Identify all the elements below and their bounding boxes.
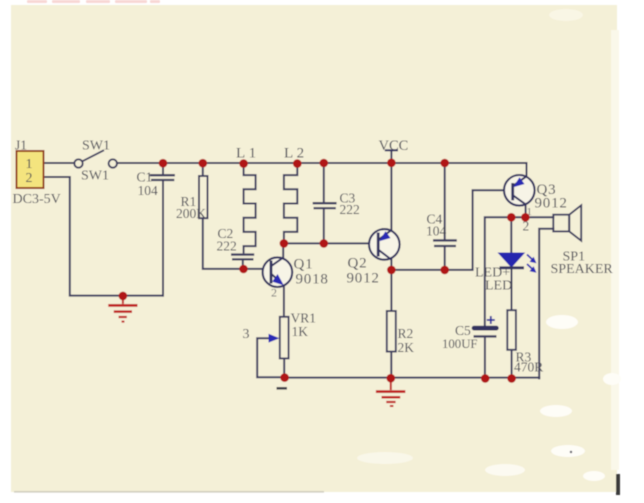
node: Q2 collector xyxy=(387,266,396,275)
svg-text:1K: 1K xyxy=(292,324,309,339)
wire: R1 bottom to Q1 base xyxy=(203,218,271,269)
node: VCC/rail xyxy=(387,159,396,168)
svg-text:2: 2 xyxy=(26,171,33,186)
wire: VCC tick stem xyxy=(390,151,392,164)
wire: VR1 wiper loop xyxy=(257,338,284,377)
inductor L1 xyxy=(244,164,256,254)
svg-text:222: 222 xyxy=(340,202,360,217)
svg-text:C5: C5 xyxy=(455,323,471,338)
node: L2 bottom / Q1 collector xyxy=(280,239,289,248)
LED D1 xyxy=(499,253,537,273)
node: C5 bottom xyxy=(481,374,490,383)
wire: Q1 collector stem xyxy=(282,243,284,258)
svg-text:DC3-5V: DC3-5V xyxy=(13,192,61,207)
capacitor C1 xyxy=(150,175,175,180)
speaker SP1 xyxy=(553,205,581,240)
wire: C3 bottom stem xyxy=(323,209,325,244)
wire: node B1 - L2/C3 row to Q2 base xyxy=(284,242,378,244)
node: C3 bottom xyxy=(320,239,329,248)
black mark bottom right xyxy=(616,474,620,495)
resistor R2 xyxy=(387,311,396,352)
svg-text:2K: 2K xyxy=(398,340,415,355)
capacitor C5 xyxy=(472,316,499,336)
node: C4 bottom xyxy=(440,266,449,275)
wire: VR1 bottom stem xyxy=(283,358,285,377)
node: C2 bottom / Q1 base xyxy=(239,265,248,274)
node: Q3 collector xyxy=(521,213,530,222)
ground (main, red) xyxy=(376,378,405,406)
capacitor C3 xyxy=(313,203,337,208)
wire: C3 top stem xyxy=(323,163,325,202)
wire: LED anode stem xyxy=(510,217,512,252)
svg-text:L2: L2 xyxy=(284,146,308,162)
wire: J1 pin2 down and bottom-left rail xyxy=(44,177,164,296)
wire: Q2 emitter from VCC rail xyxy=(390,163,392,231)
svg-text:1: 1 xyxy=(26,157,33,172)
svg-text:L1: L1 xyxy=(236,146,260,162)
inductor L2 xyxy=(284,164,297,244)
wire: R2 bottom stem xyxy=(390,352,392,379)
wire: C5 bottom stem xyxy=(484,337,486,378)
ground (battery return, red) xyxy=(108,296,137,322)
svg-text:Q1: Q1 xyxy=(294,257,314,273)
wire: Q3 collector stem xyxy=(525,204,527,217)
node: LED anode xyxy=(507,213,516,222)
wire: Q1 emitter to VR1 xyxy=(283,286,285,317)
pin 1 mark below VR1 xyxy=(277,387,288,390)
wire: J1 pin1 to SW1 xyxy=(44,162,75,164)
wire: R1 top stem xyxy=(202,163,204,176)
switch SW1 xyxy=(74,150,117,168)
white smudges bottom right xyxy=(357,9,621,481)
wire: VCC top rail xyxy=(117,163,527,177)
svg-text:J1: J1 xyxy=(15,138,27,153)
node: J1 return / ground xyxy=(119,292,128,301)
node: C4/rail xyxy=(440,159,449,168)
svg-text:R2: R2 xyxy=(398,326,414,341)
node: C1/rail xyxy=(159,159,168,168)
transistor Q3 xyxy=(504,175,535,206)
net VCC xyxy=(379,138,409,154)
wire: C1 top stem xyxy=(162,163,164,174)
capacitor C4 xyxy=(433,240,457,246)
wire: C4 top stem xyxy=(444,163,446,240)
wire: C1 lower stem xyxy=(162,180,164,295)
node: VR1 bottom xyxy=(280,373,289,382)
transistor Q2 xyxy=(369,229,400,260)
wire: R3 bottom stem xyxy=(511,350,513,379)
transistor Q1 xyxy=(263,257,293,287)
svg-text:Q2: Q2 xyxy=(348,256,368,272)
wire: Q2 collector row to Q3 base xyxy=(391,190,511,270)
node: R1/rail xyxy=(199,159,208,168)
wire: Q2 collector to R2 xyxy=(390,270,392,311)
svg-text:LED: LED xyxy=(485,279,512,294)
cropped red text fragment top edge xyxy=(27,0,160,3)
svg-text:470R: 470R xyxy=(514,360,543,375)
wire: speaker return down xyxy=(539,229,553,379)
svg-text:SW1: SW1 xyxy=(82,139,110,154)
node: C3/rail xyxy=(320,159,329,168)
svg-text:222: 222 xyxy=(217,239,237,254)
resistor R3 xyxy=(507,310,516,350)
svg-text:SW1: SW1 xyxy=(81,169,109,184)
connector J1 xyxy=(17,151,44,188)
potentiometer VR1 xyxy=(269,317,289,359)
resistor R1 xyxy=(199,176,208,218)
svg-text:9012: 9012 xyxy=(535,196,568,212)
svg-text:9018: 9018 xyxy=(296,272,329,288)
svg-text:200K: 200K xyxy=(176,206,206,221)
capacitor C2 xyxy=(231,255,254,260)
svg-text:3: 3 xyxy=(243,327,250,342)
wire: ground rail bottom xyxy=(285,377,540,379)
svg-text:2: 2 xyxy=(271,286,277,300)
wire: C2 bottom stem xyxy=(242,260,244,269)
wire: LED cathode to R3 xyxy=(511,269,513,310)
svg-text:SPEAKER: SPEAKER xyxy=(551,262,614,277)
node: L1/rail xyxy=(239,159,248,168)
svg-text:9012: 9012 xyxy=(347,271,380,287)
svg-text:104: 104 xyxy=(426,224,447,239)
node: R2 bottom / ground xyxy=(387,374,396,383)
node: R3 bottom xyxy=(507,374,516,383)
wire: Q2 collector stem xyxy=(390,259,392,270)
svg-text:100UF: 100UF xyxy=(442,337,478,351)
svg-text:VCC: VCC xyxy=(379,138,409,154)
wire: collector row to speaker with C5 drop xyxy=(485,217,554,325)
wire: C4 bottom stem xyxy=(444,247,446,270)
node: L2/rail xyxy=(293,159,302,168)
svg-text:104: 104 xyxy=(138,183,159,198)
